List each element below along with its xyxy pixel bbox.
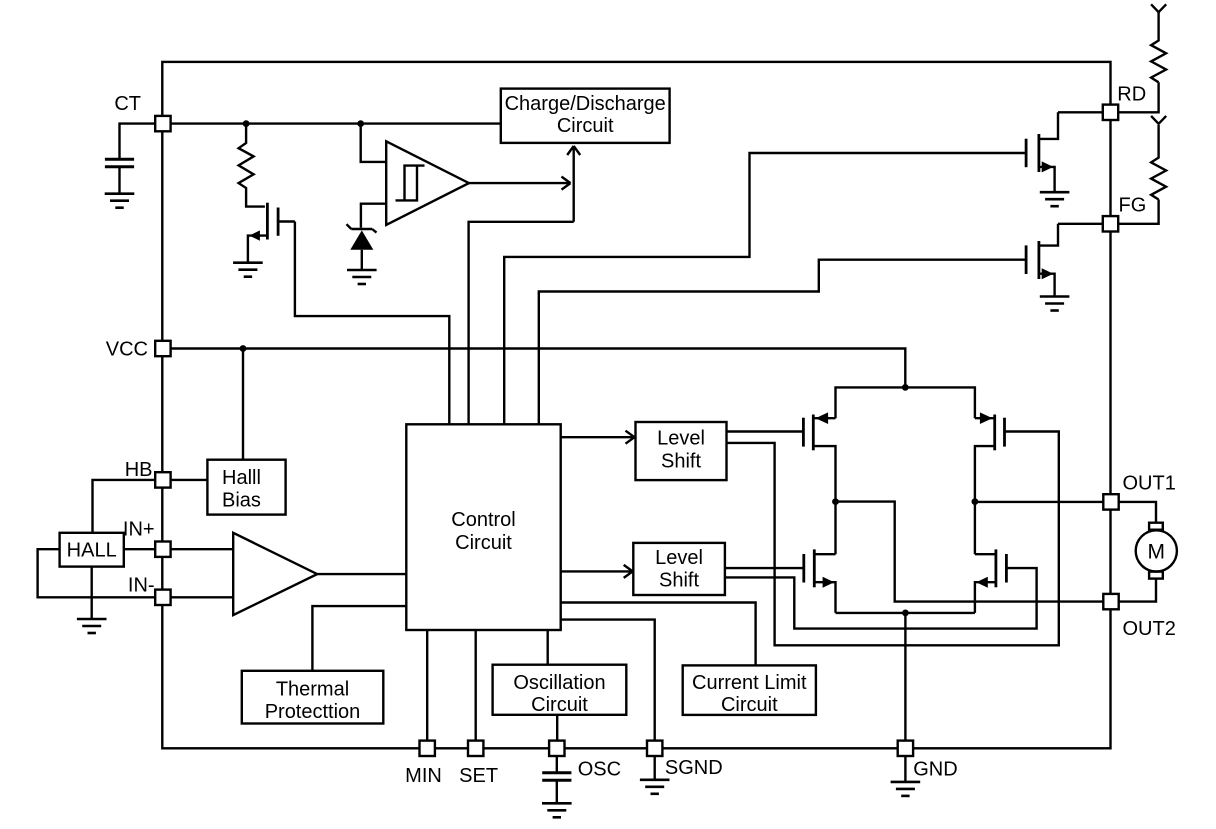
wire LS2 to Q4 gate (cross-route) (725, 568, 1037, 629)
wire VCC net (170, 349, 905, 388)
wire CT net (120, 124, 501, 160)
pin HB (155, 472, 170, 487)
ground (OSC cap) (542, 803, 572, 817)
diode D1 (zener reference) (347, 224, 377, 270)
transistor Q2 (high-side right PMOS) (975, 412, 1005, 501)
transistor Q7 (FG open drain NMOS) (1026, 224, 1058, 297)
wire FG pin to pull-up R3 (1119, 200, 1159, 224)
node VCC-HallBias junction (240, 345, 247, 352)
op-amp U1 (Schmitt comparator) (386, 141, 469, 225)
wire Q5 gate to control circuit (295, 222, 449, 425)
ground (SGND) (640, 780, 670, 794)
wire HB to HALL element (93, 480, 156, 533)
wire FG pin to Q7 (1058, 223, 1103, 225)
motor M1 (1136, 530, 1177, 571)
node right bridge mid (972, 498, 979, 505)
svg-text:IN+: IN+ (123, 519, 155, 541)
wire RD pin to Q6 (1058, 111, 1103, 113)
svg-text:HALL: HALL (67, 540, 117, 562)
block Control Circuit (406, 424, 560, 630)
svg-text:HB: HB (125, 459, 153, 481)
wire OUT2 to motor (1119, 579, 1156, 602)
wire Hall Bias supply (242, 349, 244, 460)
transistor Q6 (RD open drain NMOS) (1026, 112, 1058, 192)
ground (HALL) (77, 619, 107, 633)
block Oscillation Circuit (493, 665, 627, 715)
svg-text:IN-: IN- (128, 575, 155, 597)
resistor R3 (FG pull-up) (1151, 125, 1166, 200)
ground (Q5 source) (233, 263, 263, 277)
svg-text:Shift: Shift (661, 451, 701, 473)
wire oscillation to OSC pin (556, 715, 558, 741)
node left bridge mid (832, 498, 839, 505)
svg-text:FG: FG (1119, 195, 1147, 217)
wire bridge bottom rail (836, 612, 975, 614)
pin OUT1 (1103, 494, 1118, 509)
wire RD pin to pull-up R2 (1119, 82, 1159, 112)
svg-text:SET: SET (459, 765, 498, 787)
op-amp U2 (hall amplifier) (233, 533, 317, 615)
wire SGND ground stub (654, 756, 656, 780)
wire amp output to control (317, 573, 406, 575)
wire LS1 to Q2 gate (cross-route) (727, 432, 1059, 646)
wire IN+ to amp (170, 548, 233, 550)
pin VCC (155, 341, 170, 356)
node CT-comparator junction (357, 120, 364, 127)
pin FG (1103, 216, 1118, 231)
capacitor C1 (CT) (105, 159, 134, 193)
ground (Q7 source) (1040, 297, 1070, 311)
resistor R1 (CT discharge) (239, 124, 265, 207)
ground (GND) (891, 782, 921, 796)
wire control to level shift 1 (arrow) (561, 431, 635, 444)
svg-text:Halll: Halll (222, 467, 261, 489)
wire FG-transistor gate net (539, 260, 1026, 425)
svg-text:Oscillation: Oscillation (513, 672, 605, 694)
motor M1 terminals (1149, 523, 1163, 530)
wire control to current limit (561, 603, 756, 666)
node Y supply 2 (1151, 116, 1166, 124)
wire IN- to amp (170, 596, 233, 598)
pin CT (155, 116, 170, 131)
block Halll Bias (207, 460, 285, 515)
svg-text:RD: RD (1117, 84, 1146, 106)
wire comparator minus input (361, 204, 386, 228)
wire HALL to IN+ (124, 548, 155, 550)
pin IN+ (155, 542, 170, 557)
wire control to MIN pin (426, 630, 428, 741)
wire bridge top rail (836, 387, 975, 418)
wire OUT1 net (975, 501, 1103, 503)
resistor R2 (RD pull-up) (1151, 12, 1166, 82)
wire left mid to lower left transistor (834, 502, 836, 555)
wire control to SGND (561, 620, 655, 741)
svg-text:SGND: SGND (665, 757, 723, 779)
wire control to SET pin (475, 630, 477, 741)
wire thermal protection link (312, 606, 406, 671)
IC boundary box (162, 62, 1110, 748)
pin MIN (420, 741, 435, 756)
svg-text:Thermal: Thermal (276, 679, 349, 701)
wire right mid to lower right transistor (974, 502, 976, 555)
wire RD-transistor gate net (504, 153, 1026, 424)
svg-text:OUT1: OUT1 (1123, 473, 1176, 495)
svg-text:Bias: Bias (222, 490, 261, 512)
wire charge/discharge feedback (469, 146, 581, 424)
wire HALL ground stub (90, 567, 92, 619)
wire comparator plus input (361, 124, 387, 162)
svg-text:VCC: VCC (106, 339, 148, 361)
node bridge ground (902, 610, 909, 617)
wire OUT1 to motor (1119, 502, 1156, 523)
wire comparator output with arrow (469, 177, 571, 190)
transistor Q3 (low-side left NMOS) (804, 549, 836, 613)
pin OUT2 (1103, 594, 1118, 609)
wire control to oscillation circuit (547, 630, 549, 665)
block Charge/Discharge Circuit (501, 89, 670, 143)
capacitor C2 (OSC) (542, 756, 571, 803)
svg-text:M: M (1148, 541, 1166, 564)
node CT-R junction (243, 120, 250, 127)
svg-text:Charge/Discharge: Charge/Discharge (505, 93, 666, 115)
transistor Q5 (CT discharge NMOS) (248, 203, 295, 263)
svg-text:Circuit: Circuit (455, 532, 512, 554)
svg-text:Current Limit: Current Limit (692, 672, 807, 694)
pin RD (1103, 105, 1118, 120)
wire GND net (904, 613, 906, 782)
node Y supply 1 (1151, 4, 1166, 12)
transistor Q1 (high-side left PMOS) (803, 412, 835, 501)
pin SGND (647, 741, 662, 756)
pin SET (468, 741, 483, 756)
pin GND (898, 741, 913, 756)
ground (Q6 source) (1040, 192, 1070, 206)
pin IN- (155, 590, 170, 605)
svg-text:CT: CT (114, 93, 141, 115)
svg-text:Control: Control (451, 509, 515, 531)
svg-text:Circuit: Circuit (531, 694, 588, 716)
wire OUT2 net (836, 502, 1104, 602)
svg-text:OSC: OSC (578, 759, 621, 781)
svg-text:MIN: MIN (405, 765, 442, 787)
block HALL sensor (60, 533, 124, 567)
block Level Shift 1 (636, 422, 727, 480)
ground (CT cap) (105, 194, 135, 208)
block Current Limit Circuit (683, 665, 816, 715)
svg-text:Circuit: Circuit (557, 115, 614, 137)
transistor Q4 (low-side right NMOS) (975, 549, 1007, 613)
svg-text:Circuit: Circuit (721, 694, 778, 716)
svg-text:Protecttion: Protecttion (265, 701, 361, 723)
svg-text:OUT2: OUT2 (1123, 618, 1176, 640)
svg-text:Level: Level (655, 547, 703, 569)
block Thermal Protecttion (242, 671, 383, 724)
wire LS2 to Q3 gate (725, 567, 804, 569)
pin OSC (549, 741, 564, 756)
svg-text:Level: Level (657, 428, 705, 450)
block Level Shift 2 (633, 543, 725, 595)
wire HALL to IN- (38, 549, 155, 597)
wire HB to Hall Bias (170, 479, 207, 481)
svg-text:Shift: Shift (659, 570, 699, 592)
wire control to level shift 2 (arrow) (561, 565, 633, 578)
node bridge supply (902, 384, 909, 391)
wire LS1 to Q1 gate (727, 430, 804, 432)
ground (zener) (347, 270, 377, 284)
svg-text:GND: GND (913, 759, 957, 781)
